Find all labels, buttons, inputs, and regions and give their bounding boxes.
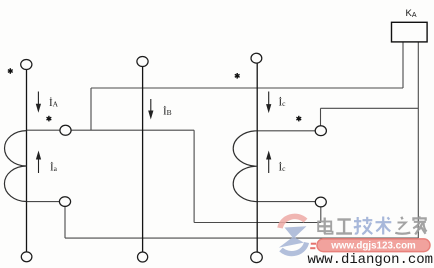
wire C-line to C-bottom terminal — [257, 201, 321, 203]
terminal a (secondary A bottom) — [59, 197, 70, 207]
polarity mark A primary — [8, 68, 13, 74]
svg-text:www.dgjs123.com: www.dgjs123.com — [330, 241, 416, 252]
phase A primary conductor — [26, 65, 28, 257]
CT TC winding (phase C secondary) — [233, 131, 257, 202]
wire A-line to A-bottom terminal — [27, 201, 66, 203]
terminal c (secondary C bottom) — [315, 197, 326, 207]
char jia — [413, 216, 426, 234]
wire relay right lead down — [417, 42, 419, 238]
arrow IC — [267, 92, 271, 112]
wire C-line to C-top terminal — [257, 130, 321, 132]
terminal C top — [251, 53, 262, 63]
wire: secondary circuit — [27, 42, 419, 238]
phase C primary conductor — [256, 58, 258, 257]
wire horizontal y222 — [194, 222, 321, 224]
wire C-top riser — [320, 108, 322, 130]
arrow Ia — [37, 153, 41, 174]
watermark logo — [279, 216, 307, 253]
char shu — [376, 217, 392, 235]
svg-text:İc: İc — [279, 162, 287, 174]
wire top bus y88 to relay left lead — [91, 87, 403, 89]
watermark pill www.dgjs123.com — [317, 239, 430, 252]
terminal B bottom — [138, 252, 148, 262]
wire vertical riser to KA-left bus — [90, 88, 92, 130]
svg-text:İa: İa — [50, 162, 58, 174]
wire vertical x194 — [193, 130, 195, 222]
terminal circles — [21, 53, 327, 262]
arrow IA — [37, 92, 41, 111]
char dian — [318, 218, 332, 234]
svg-text:İc: İc — [279, 97, 287, 109]
CT TA winding (phase A secondary) — [4, 131, 26, 202]
terminal A bottom — [21, 252, 32, 262]
wire A-bottom drop — [64, 202, 66, 239]
terminal B top — [137, 57, 148, 67]
watermark red dashes — [310, 244, 316, 249]
wire C-bottom terminal drop — [320, 202, 322, 223]
svg-text:İA: İA — [49, 97, 59, 109]
polarity mark a secondary — [47, 116, 52, 122]
svg-text:www.diangon.com: www.diangon.com — [308, 252, 434, 268]
wire bottom bus y238 — [65, 237, 418, 239]
phase B primary conductor — [142, 62, 144, 258]
wire relay left lead — [402, 42, 404, 88]
polarity mark C primary — [235, 73, 240, 79]
relay KA box — [392, 22, 428, 42]
svg-text:İB: İB — [163, 106, 172, 118]
terminal C bottom — [251, 252, 263, 263]
wire A-line to A-top terminal — [27, 129, 195, 131]
watermark hanzi 电工技术之家 — [318, 216, 426, 234]
char zhi — [395, 217, 410, 234]
terminal c (secondary C top) — [315, 126, 326, 136]
terminal A top — [21, 60, 32, 70]
char gong — [336, 220, 352, 234]
polarity mark c secondary — [296, 116, 301, 122]
arrow IB — [149, 99, 153, 118]
char ji — [354, 217, 373, 235]
terminal a (secondary A top) — [60, 125, 71, 135]
arrow Ic — [267, 153, 271, 174]
wire C-top bus y108 — [321, 107, 419, 109]
